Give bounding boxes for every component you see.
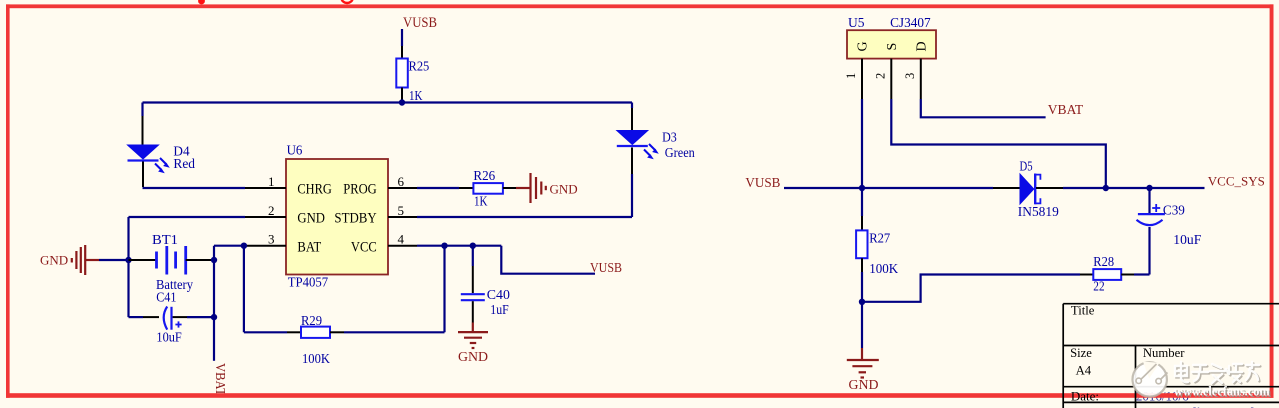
svg-text:Red: Red [173,157,195,172]
power ground GND (right of R26) [516,173,578,203]
watermark url www.elecfans.com [1174,384,1272,400]
svg-text:Size: Size [1070,346,1092,360]
svg-text:1K: 1K [474,195,488,210]
resistor R28 [1080,269,1150,280]
svg-text:10uF: 10uF [156,331,182,346]
svg-text:C41: C41 [156,290,176,305]
junction (source/VCC_SYS) [1103,185,1109,191]
svg-text:100K: 100K [869,262,898,277]
power ground GND (under R27) [847,360,879,392]
svg-text:VUSB: VUSB [590,261,622,276]
svg-text:IN5819: IN5819 [1018,204,1059,219]
svg-text:C40: C40 [487,288,510,303]
wire R27 tap down to GND [861,302,863,359]
svg-text:1: 1 [844,73,858,79]
svg-text:File:: File: [1071,404,1095,408]
wire VUSB to R25 [401,29,403,46]
svg-text:GND: GND [550,181,578,196]
wire D4 anode [141,103,143,146]
wire top bus [143,101,633,103]
svg-text:100K: 100K [302,352,330,367]
wire U6 pin6 to R26 [417,187,459,189]
svg-text:A4: A4 [1076,363,1092,377]
svg-text:R27: R27 [869,232,890,247]
title block [1063,304,1279,408]
IC U6 TP4057 [245,159,417,275]
resistor R25 [396,46,408,100]
svg-text:R28: R28 [1093,255,1114,270]
capacitor C41 [129,307,215,330]
wire D5 cathode to VCC_SYS port [1063,187,1205,189]
svg-text:2: 2 [873,73,887,79]
wire U6 pin4 row [417,245,501,247]
wire U5 drain to VBAT port [921,99,1046,117]
junction (R25/bus) [399,99,405,105]
IC U5 CJ3407 [847,30,936,99]
junction (C41/VBAT column) [211,314,217,320]
svg-text:GND: GND [40,253,68,268]
wire VBAT stub [213,317,215,361]
svg-text:10uF: 10uF [1173,233,1201,248]
wire VUSB main line [784,187,1020,189]
svg-text:GND: GND [458,349,488,364]
svg-text:VUSB: VUSB [403,15,437,31]
resistor R29 [244,327,445,338]
svg-text:D5: D5 [1020,160,1033,175]
svg-text:1uF: 1uF [490,303,509,318]
junction (gate/VUSB) [859,185,865,191]
wire U5 source to VCC_SYS line [891,99,1106,188]
junction (C39/VCC_SYS) [1146,185,1152,191]
svg-text:BT1: BT1 [152,233,178,248]
svg-text:Title: Title [1071,304,1095,318]
battery BT1 [129,246,215,275]
resistor R26 [459,183,516,194]
svg-text:22: 22 [1093,279,1104,294]
capacitor C39 [1137,188,1165,225]
junction (battery/VBAT column) [211,257,217,263]
svg-text:STDBY: STDBY [334,210,377,226]
wire U5 gate to VUSB line [861,99,863,188]
junction (GND/pin2 column) [125,257,131,263]
watermark chinese characters dian-zi-fa-shao-you [1175,362,1260,384]
wire U6 pin2 to battery column [129,217,246,317]
svg-text:VCC: VCC [351,239,377,255]
svg-text:VUSB: VUSB [745,176,780,191]
resistor R27 [856,188,867,302]
diode D5 IN5819 [1020,174,1063,205]
junction (pin4/R29) [441,243,447,249]
wire R28 up to C39 [1148,227,1150,275]
junction (R27/R28 tap) [859,299,865,305]
svg-text:Date:: Date: [1071,389,1099,404]
svg-text:3: 3 [903,73,917,79]
junction (pin4/C40) [470,243,476,249]
svg-text:D:\You\nuliPower.SchDoc: D:\You\nuliPower.SchDoc [1136,404,1279,408]
capacitor C40 [461,246,485,332]
wire D4 cathode to U6 pin1 [143,187,246,189]
svg-text:VCC_SYS: VCC_SYS [1208,174,1265,189]
svg-text:GND: GND [849,377,879,392]
svg-text:PROG: PROG [343,181,377,197]
svg-text:2: 2 [268,203,275,218]
watermark logo circle [1133,362,1168,397]
svg-text:Number: Number [1143,346,1185,360]
wire GND to battery junction [99,259,129,261]
svg-text:S: S [885,43,900,51]
LED D3 [617,103,659,175]
LED D4 [128,145,170,187]
svg-text:U5: U5 [848,16,865,31]
power ground GND (battery, left) [40,245,99,275]
wire pin3 junction down to R29 [243,246,245,333]
svg-text:D3: D3 [662,130,677,145]
svg-text:TP4057: TP4057 [288,276,328,291]
wire R27 tap to R28 [862,275,1080,302]
svg-text:G: G [856,41,871,51]
svg-text:CHRG: CHRG [297,181,332,197]
svg-text:3: 3 [268,232,275,247]
svg-text:4: 4 [398,232,405,247]
junction (pin3/R29 feed) [241,243,247,249]
svg-text:www.elecfans.com: www.elecfans.com [1174,384,1271,399]
svg-text:GND: GND [297,210,325,226]
svg-text:VBAT: VBAT [1048,103,1084,118]
svg-text:U6: U6 [287,144,303,159]
svg-text:R25: R25 [409,60,430,75]
svg-text:5: 5 [398,203,405,218]
svg-text:C39: C39 [1163,203,1185,218]
svg-text:R29: R29 [301,314,322,329]
cropped heading remnant (y descender) [198,0,205,4]
svg-text:1: 1 [268,174,275,189]
svg-text:D: D [915,41,930,51]
svg-text:CJ3407: CJ3407 [890,15,931,30]
wire U6 pin3 to VBAT column [214,246,245,317]
wire pin4 to VUSB port [501,246,595,274]
wire R29 up to pin4 row [443,246,445,333]
svg-text:VBAT: VBAT [212,363,227,396]
cropped heading remnant (g bowl) [342,0,353,3]
svg-text:6: 6 [398,174,405,189]
wire U6 pin5 to D3 [417,174,632,217]
svg-text:Green: Green [665,146,695,161]
svg-text:BAT: BAT [297,239,321,255]
power ground GND (under C40) [458,332,488,364]
svg-text:R26: R26 [473,169,495,184]
